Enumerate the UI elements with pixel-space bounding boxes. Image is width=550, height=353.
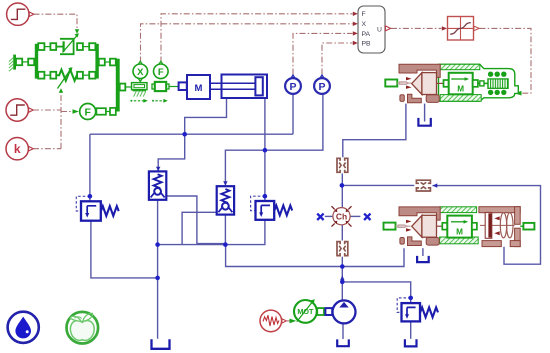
wire P1 riser	[292, 94, 294, 134]
wire main line A (cap side)	[90, 133, 293, 135]
svg-text:F: F	[158, 67, 164, 78]
velocity arrow under X	[130, 99, 147, 103]
svg-text:X: X	[362, 21, 367, 28]
flow arrow into check2	[223, 181, 227, 186]
signal wire noise to motor	[287, 320, 290, 322]
relief valve c	[402, 303, 439, 321]
valve2 chamber piston	[485, 213, 492, 239]
svg-text:P: P	[318, 81, 325, 93]
link right bar to rod bar	[99, 59, 116, 66]
position sensor X	[133, 61, 148, 81]
wire pump supply line	[226, 245, 404, 267]
valve2 motor box M	[447, 216, 477, 238]
orifice 3 (horizontal)	[416, 180, 430, 191]
tank relief c	[405, 339, 417, 346]
valve2 input pad green	[384, 223, 396, 230]
spring-damper left bar	[35, 44, 38, 79]
valve1 hatched strip top	[440, 64, 480, 69]
wire valve1 portB to tank	[424, 104, 426, 122]
check valve 2	[217, 186, 234, 214]
spring variable arrow	[58, 67, 73, 88]
wire orifice1 to Ch	[341, 173, 343, 207]
svg-text:PB: PB	[362, 41, 372, 48]
orifice 1	[337, 158, 348, 172]
valve1 piston	[422, 73, 437, 95]
velocity arrow under F	[152, 99, 168, 103]
wire check1 side tap	[166, 196, 226, 244]
svg-text:PA: PA	[362, 31, 371, 38]
tank valve2 T	[417, 256, 429, 262]
valve2 body seat top	[399, 207, 440, 220]
valve1 motor box M	[449, 73, 478, 95]
noise source	[260, 310, 286, 332]
wire relief c drain	[410, 321, 412, 338]
chamber node Ch	[317, 206, 370, 226]
signal wire step2/k vertical trunk	[33, 93, 72, 149]
plug right	[364, 214, 370, 220]
spring branch pads	[38, 72, 95, 79]
valve2 link to motor box	[437, 225, 443, 227]
wire relief b drain	[158, 220, 265, 245]
check valve 1	[149, 171, 166, 199]
signal wire F sensor to controller	[141, 14, 532, 93]
svg-text:F: F	[362, 11, 366, 18]
signal wire X sensor to controller	[141, 24, 353, 63]
wire check1 outlet to tank	[157, 200, 159, 339]
damper D1 (variable)	[56, 39, 73, 54]
valve1 coil link	[478, 82, 488, 84]
mass element under F	[152, 82, 169, 91]
pilot dashed line relief b	[251, 196, 265, 210]
valve2 chamber spring	[500, 213, 506, 238]
wire orifice2 to pump	[341, 257, 343, 301]
pressure sensor P1	[285, 75, 301, 94]
svg-text:P: P	[289, 81, 296, 93]
signal wire P2 to controller PB	[322, 43, 353, 75]
wire check2 outlet	[224, 215, 226, 245]
saturation block	[448, 17, 480, 41]
rod bar side pad	[120, 84, 126, 91]
valve2 body bottom right slab	[426, 238, 439, 246]
wire relief a top pipe	[89, 134, 91, 201]
hydraulic cylinder	[222, 75, 268, 99]
relief valve a	[81, 201, 119, 220]
damper branch pads	[38, 43, 95, 50]
signal wire step1 to damper	[34, 14, 78, 30]
force sensor F	[154, 61, 169, 78]
wall connector pads	[16, 59, 34, 66]
valve1 poppet	[412, 73, 422, 95]
valve1 body seat top	[399, 64, 440, 77]
wire orifice3 left branch	[342, 184, 414, 186]
arrow into motor	[290, 319, 297, 324]
wall (fixed support)	[9, 55, 16, 72]
motor shaft pads	[317, 308, 324, 315]
valve1 body bottom right slab	[426, 95, 439, 103]
wire check2 side tap	[182, 212, 217, 244]
arrow into force source F1	[73, 109, 79, 113]
valve2 hatched strip top	[440, 207, 477, 213]
flow arrow pump outlet	[340, 275, 344, 280]
wire valve2 portT to tank	[422, 248, 424, 256]
arrow into valve1 coil	[515, 91, 522, 96]
wire cylinder portA to junction and check1	[158, 98, 226, 171]
wire Ch to orifice2	[341, 225, 343, 241]
svg-text:MOT: MOT	[297, 307, 314, 316]
svg-text:F: F	[84, 107, 91, 119]
relief valve b	[256, 201, 293, 220]
pilot dashed line relief a	[76, 196, 410, 312]
wire valve1 portA to orifice1	[343, 104, 406, 158]
signal wire U to saturation	[391, 27, 442, 29]
flow arrow into orifice3	[433, 183, 438, 187]
valve2 chamber center line	[480, 224, 515, 226]
valve1 flow arrows	[406, 77, 412, 80]
wire pump to relief c	[342, 282, 410, 303]
damper variable arrow	[63, 33, 79, 52]
wire wall to springdamper	[22, 61, 28, 63]
pilot dashed line relief c	[397, 298, 411, 313]
step source 1	[7, 3, 34, 25]
signal wire P1 to controller PA	[293, 33, 353, 74]
pressure sensor P2	[314, 75, 330, 94]
valve2 hatched strip bottom	[440, 237, 479, 244]
svg-text:X: X	[137, 67, 144, 78]
friction element under X	[132, 83, 148, 97]
svg-text:Ch: Ch	[336, 212, 347, 222]
orifice 2	[337, 242, 348, 256]
wire relief a drain	[91, 221, 158, 278]
svg-text:M: M	[456, 227, 463, 236]
signal wire saturation to valve1 coil	[480, 28, 532, 93]
pump	[333, 300, 356, 323]
spring C1 (variable)	[56, 70, 77, 81]
tank valve1 T	[418, 118, 430, 126]
valve1 hatched strip bottom	[440, 95, 481, 102]
arrow into damper	[75, 29, 79, 34]
valve1 input pad green	[385, 80, 397, 87]
constant k source	[6, 138, 33, 160]
wire cylinder portB riser to relief b	[264, 98, 266, 201]
valve2 spring chamber housing	[479, 207, 520, 247]
plug left	[317, 214, 370, 220]
valve1 needle	[397, 82, 411, 84]
valve1 coil dots	[488, 72, 507, 96]
tank pump	[337, 339, 349, 346]
controller block F X PA PB -> U	[358, 6, 391, 53]
force source F1	[80, 104, 96, 120]
valve2 piston	[422, 215, 437, 237]
valve2 body bottom L piece	[408, 237, 422, 246]
valve2 chamber arrows	[494, 216, 499, 220]
step source 2	[6, 99, 33, 121]
svg-text:M: M	[195, 83, 203, 94]
svg-text:M: M	[457, 84, 464, 93]
spring-damper right bar	[95, 44, 98, 79]
piston rod	[210, 83, 255, 89]
valve2 poppet	[412, 215, 422, 237]
tank T1	[152, 339, 170, 349]
arrow into spring	[59, 88, 63, 93]
svg-text:U: U	[377, 26, 382, 33]
valve1 body bottom small block	[400, 95, 404, 102]
mass M	[179, 82, 187, 90]
rod bar	[116, 59, 120, 112]
valve1 coil winding	[488, 79, 508, 88]
gravity (apple icon)	[67, 312, 99, 344]
valve2 needle	[396, 225, 411, 227]
fluid definition (droplet icon)	[8, 312, 39, 343]
flow arrow into check1	[156, 167, 160, 172]
valve1 link to motor box	[437, 82, 444, 84]
arrowheads at controller inputs	[353, 12, 447, 46]
svg-text:k: k	[14, 142, 21, 156]
valve1 body bottom L piece	[408, 94, 422, 103]
valve2 body bottom small block	[400, 238, 404, 245]
wire line B: check2 P2	[225, 94, 323, 184]
valve2 output pad green	[520, 225, 523, 227]
motor MOT	[294, 300, 317, 323]
wire pump to tank	[342, 323, 344, 339]
wire orifice3 to valve2 spring chamber	[433, 186, 541, 265]
valve1 housing	[439, 64, 519, 101]
valve2 flow arrows	[406, 220, 412, 223]
